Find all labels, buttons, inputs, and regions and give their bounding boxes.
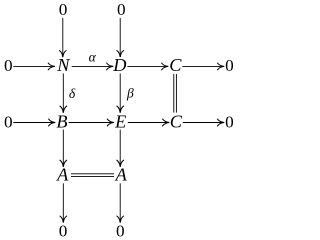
wire arrow N to D [72,65,114,67]
svg-text:D: D [112,55,126,75]
svg-text:0: 0 [225,112,234,131]
svg-text:B: B [56,111,67,131]
wire arrow 0 to N (vertical) [62,18,64,57]
svg-text:A: A [56,165,69,185]
equals C to C (double vertical line) [174,74,177,113]
svg-text:α: α [89,50,97,65]
svg-text:0: 0 [59,222,68,239]
wire arrow 0 to B (horizontal) [13,122,55,124]
wire arrow 0 to N (horizontal) [13,65,55,67]
wire arrow C to 0 (row1) [182,65,224,67]
svg-text:C: C [169,55,182,75]
wire arrow B to E [69,122,114,124]
wire arrow B to A (vertical) [62,130,64,167]
wire arrow A to 0 right (vertical) [119,183,121,222]
svg-text:0: 0 [4,56,13,75]
wire arrow N to B (vertical) [62,73,64,112]
wire arrow 0 to D (vertical) [119,18,121,57]
wire arrow A to 0 left (vertical) [62,183,64,222]
wire arrow E to A (vertical) [119,130,121,167]
svg-text:0: 0 [59,0,68,19]
svg-text:E: E [114,111,126,131]
wire arrow D to C [127,65,168,67]
svg-text:0: 0 [117,0,126,19]
svg-text:δ: δ [69,86,76,101]
svg-text:0: 0 [116,222,125,239]
svg-text:0: 0 [4,112,13,131]
wire arrow E to C [128,122,169,124]
wire arrow C to 0 (row2) [183,122,224,124]
equals A to A (double horizontal line) [71,174,114,177]
svg-text:β: β [126,86,134,101]
wire arrow D to E (vertical) [119,73,121,112]
svg-text:C: C [170,111,183,131]
svg-text:A: A [115,165,128,185]
svg-text:N: N [56,55,71,75]
svg-text:0: 0 [225,56,234,75]
